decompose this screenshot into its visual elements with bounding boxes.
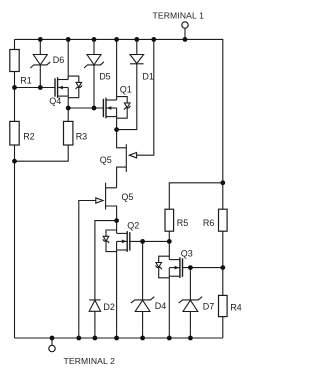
svg-text:D1: D1 xyxy=(142,72,154,82)
svg-text:D7: D7 xyxy=(203,301,215,311)
svg-text:R4: R4 xyxy=(230,303,242,313)
svg-text:R1: R1 xyxy=(20,75,32,85)
svg-text:TERMINAL 1: TERMINAL 1 xyxy=(153,10,205,20)
svg-text:R2: R2 xyxy=(23,132,35,142)
svg-text:D5: D5 xyxy=(99,72,111,82)
svg-text:Q3: Q3 xyxy=(181,248,193,258)
svg-text:Q5: Q5 xyxy=(100,155,112,165)
svg-text:TERMINAL 2: TERMINAL 2 xyxy=(64,356,116,366)
svg-text:Q5: Q5 xyxy=(121,192,133,202)
svg-text:Q1: Q1 xyxy=(120,84,132,94)
svg-text:D2: D2 xyxy=(103,302,115,312)
svg-text:D4: D4 xyxy=(155,301,167,311)
svg-text:R5: R5 xyxy=(177,218,189,228)
svg-text:D6: D6 xyxy=(53,55,65,65)
svg-text:R6: R6 xyxy=(203,218,215,228)
svg-text:Q2: Q2 xyxy=(127,221,139,231)
svg-text:Q4: Q4 xyxy=(49,96,61,106)
svg-text:R3: R3 xyxy=(76,132,88,142)
